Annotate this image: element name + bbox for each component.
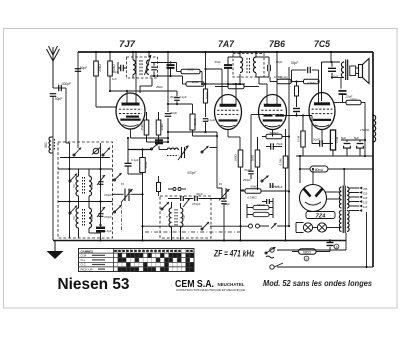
resistor 1M horizontal	[176, 63, 178, 72]
IF transformer IFT2 shield box	[233, 54, 264, 78]
pilot lamp 1	[303, 223, 312, 232]
wire cathode RC rail	[127, 138, 129, 150]
tube 7A7 cathode	[219, 119, 238, 121]
capacitor 100pF dark	[167, 64, 175, 66]
svg-text:0.1μF: 0.1μF	[179, 95, 187, 99]
capacitor 0.1uF osc right	[203, 118, 209, 120]
wire AVC column	[77, 52, 79, 148]
row A trimmer	[93, 148, 99, 154]
IF transformer IFT1 shield box	[127, 57, 158, 78]
power transformer heater winding	[339, 211, 341, 232]
output transformer voice coil	[350, 66, 356, 76]
svg-text:Niesen 53: Niesen 53	[58, 276, 130, 293]
svg-text:8μF: 8μF	[354, 136, 359, 140]
wire tuning C1 leads	[113, 193, 124, 195]
pilot lamp 2	[317, 223, 326, 232]
svg-text:15: 15	[219, 182, 223, 186]
tube 7J7 cathode	[120, 119, 140, 121]
tube 7C5 anode	[314, 102, 330, 105]
svg-text:50pF: 50pF	[291, 61, 299, 65]
coil unit shield box	[58, 142, 113, 238]
wire transformer foot	[345, 233, 347, 250]
svg-text:100Ω: 100Ω	[234, 154, 238, 162]
switch detector	[262, 176, 269, 182]
wire osc box internals	[168, 198, 180, 200]
wire IFT1 secondary top rail	[151, 62, 177, 64]
row B coil primary	[76, 176, 79, 196]
svg-text:250pF: 250pF	[243, 178, 251, 182]
wire 7B6 grid stem	[266, 84, 268, 106]
wire voltage tap down	[366, 212, 368, 267]
resistor 25k vertical osc	[144, 120, 149, 135]
svg-text:25kΩ: 25kΩ	[156, 85, 163, 89]
capacitor 30pF	[194, 196, 196, 201]
tube 7B6 diode plates	[264, 114, 273, 116]
resistor AVC 50k	[228, 84, 244, 89]
wire coupling node up	[291, 70, 293, 82]
capacitor IFT2 secondary	[267, 65, 269, 72]
svg-text:150Ω: 150Ω	[350, 98, 357, 102]
oscillator switch left	[162, 202, 169, 209]
svg-text:20kΩ: 20kΩ	[160, 123, 164, 131]
tuning capacitor C1	[124, 189, 126, 202]
wire row divider 2	[58, 201, 113, 203]
capacitor 25uF cathode bypass	[339, 90, 347, 92]
wire secondary drop	[340, 78, 342, 89]
resistor osc top small	[157, 183, 161, 192]
row B core	[82, 177, 84, 194]
capacitor mains	[327, 242, 334, 244]
box 680mA	[299, 249, 317, 255]
svg-text:15: 15	[121, 182, 125, 186]
wire cap to coil top	[65, 88, 67, 143]
wire osc stem	[167, 52, 169, 112]
switch mid row C	[115, 205, 122, 212]
svg-text:7C5: 7C5	[314, 39, 330, 49]
tube 7J7 second anode	[126, 116, 139, 118]
wire AVC long vertical	[288, 67, 290, 226]
svg-text:70pF: 70pF	[244, 168, 251, 172]
row C coil primary	[76, 208, 79, 228]
svg-text:7B6: 7B6	[269, 39, 285, 49]
svg-text:300Ω: 300Ω	[144, 162, 148, 169]
IFT1 tuning arrow	[145, 55, 152, 75]
resistor 0.5M diode load	[277, 79, 291, 84]
svg-text:30pF: 30pF	[196, 192, 203, 196]
row B trimmer arrow	[97, 175, 105, 185]
power transformer HT winding	[339, 187, 341, 208]
power transformer secondary taps	[347, 187, 349, 208]
wire osc long vertical	[216, 132, 218, 188]
resistor 0.5M grid 7C5	[304, 79, 320, 84]
svg-text:25kΩ: 25kΩ	[98, 64, 102, 72]
svg-text:0.5M: 0.5M	[335, 136, 339, 143]
capacitor 0.1uF det	[269, 183, 271, 188]
svg-text:50kΩ: 50kΩ	[250, 185, 258, 189]
tube 7Z4 plates	[304, 189, 311, 197]
wire IFT2 secondary down to 7B6	[258, 77, 260, 84]
capacitor 20nF	[319, 140, 321, 147]
capacitor small secondary	[151, 66, 157, 68]
resistor 50k boxed	[253, 205, 269, 209]
tube 7C5 grids	[312, 108, 333, 110]
svg-text:O.L: O.L	[81, 258, 86, 262]
capacitor 50pF osc grid	[165, 113, 172, 115]
wire row A rail	[60, 157, 110, 159]
capacitor padder 370pF	[180, 196, 182, 201]
capacitor on detector divider	[293, 108, 300, 110]
wire to 7A7 grid	[206, 68, 223, 70]
svg-text:125: 125	[363, 201, 368, 205]
svg-text:b: b	[306, 257, 308, 261]
svg-text:560: 560	[44, 142, 48, 148]
capacitor 70pF	[270, 143, 272, 150]
switch mid row B	[115, 173, 122, 180]
wire IFT1 secondary bottom rail	[150, 75, 183, 77]
wire diode AVC line	[284, 115, 312, 117]
tube 7C5 envelope	[309, 93, 335, 130]
resistor 25k vertical	[95, 52, 97, 61]
wire IFT1 stems	[132, 52, 134, 57]
resistor 0.5M vertical	[283, 156, 288, 168]
wire left drop	[299, 156, 301, 169]
capacitor padder dark	[155, 139, 163, 141]
IFT1 secondary coil	[147, 60, 149, 74]
svg-text:20kΩ: 20kΩ	[193, 118, 197, 126]
IFT2 core	[246, 58, 248, 74]
wire transformer bottom	[332, 77, 344, 79]
wire divider vertical	[205, 52, 207, 89]
output transformer primary	[341, 62, 344, 78]
svg-text:500pF: 500pF	[271, 185, 280, 189]
IFT1 primary coil	[133, 60, 135, 74]
oscillator switch contacts	[173, 188, 176, 191]
tube 7B6 cathode	[263, 119, 283, 121]
wire between resistors	[291, 81, 304, 83]
wire osc node	[168, 103, 193, 105]
svg-text:NEUCHATEL: NEUCHATEL	[218, 282, 245, 287]
IFT1 core	[139, 60, 141, 75]
electrolytic 8uF second	[359, 140, 361, 142]
svg-text:1nF: 1nF	[112, 77, 117, 81]
wire RC bottom	[128, 173, 143, 175]
wire mains rail	[277, 249, 346, 251]
capacitor padder on C2	[221, 200, 227, 202]
svg-text:245: 245	[363, 187, 368, 191]
svg-text:1500Ω: 1500Ω	[360, 128, 370, 132]
resistor 100R cathode 7A7	[238, 150, 243, 167]
oscillator tracking coil	[167, 148, 178, 150]
svg-text:470pF: 470pF	[104, 193, 112, 197]
svg-text:50: 50	[182, 215, 186, 219]
wire lamps rail	[296, 222, 304, 224]
transformer tap arrows	[349, 187, 359, 189]
wire gang link 2	[145, 231, 242, 233]
svg-text:500pF: 500pF	[62, 82, 71, 86]
IFT2 secondary coil	[253, 57, 256, 73]
wire antenna mast down	[52, 97, 54, 240]
svg-text:0.5MΩ: 0.5MΩ	[274, 75, 282, 79]
tube 7A7 grids	[217, 109, 239, 111]
wire 7J7 screen stem	[126, 91, 128, 104]
capacitor tone 5nF	[331, 62, 333, 67]
svg-text:50: 50	[72, 216, 76, 220]
svg-text:50 kΩ: 50 kΩ	[257, 203, 264, 207]
wire plate rail 7A7	[202, 83, 245, 85]
svg-text:20nF: 20nF	[313, 138, 320, 142]
wire transformer HT top feed	[343, 169, 345, 186]
row C switch	[70, 206, 77, 214]
oscillator switch right	[202, 222, 209, 229]
IFT2 primary coil	[240, 57, 243, 73]
label circled a	[334, 244, 339, 249]
row C trimmer arrow	[97, 207, 105, 217]
wire IFT2 stems to bus	[239, 52, 241, 57]
wire coil stubs row C	[78, 202, 80, 209]
wire 7A7 grid stem	[221, 69, 223, 105]
svg-text:0.5M: 0.5M	[279, 158, 283, 165]
svg-text:500kΩ: 500kΩ	[270, 131, 280, 135]
svg-text:220: 220	[363, 192, 368, 196]
capacitor IFT1 primary	[120, 65, 122, 72]
power transformer core	[342, 186, 344, 234]
wire main ground bus	[53, 240, 346, 242]
wire B+ top bus	[78, 51, 373, 53]
svg-text:1MΩ: 1MΩ	[192, 80, 199, 84]
capacitor IFT2 primary	[224, 64, 232, 66]
svg-text:30pF: 30pF	[170, 95, 177, 99]
antenna coil 560	[49, 137, 51, 153]
oscillator coil primary	[169, 208, 171, 227]
output transformer core	[345, 60, 347, 81]
resistor 1M horizontal second	[186, 82, 204, 87]
tube 7B6 anode	[264, 104, 281, 107]
row B switch	[70, 174, 77, 182]
wire 7A7 plate stem	[235, 84, 237, 105]
tube 7A7 anode	[220, 104, 237, 107]
svg-text:0.1μF: 0.1μF	[131, 158, 139, 162]
wire left inner vertical	[69, 143, 71, 238]
tube 7J7 anode	[122, 103, 140, 106]
svg-text:a: a	[336, 245, 338, 249]
oscillator trimmer arrow	[183, 198, 190, 207]
svg-text:O.M: O.M	[81, 254, 87, 258]
resistor 150R cathode	[346, 100, 361, 105]
svg-text:7A7: 7A7	[218, 39, 235, 49]
tube 7C5 cathode	[313, 119, 331, 121]
svg-text:1MΩ: 1MΩ	[187, 68, 194, 72]
resistor 0.5M boxed	[330, 130, 335, 150]
capacitor 0.1uF foot	[96, 227, 105, 229]
capacitor 70pF lower	[248, 170, 254, 172]
tube 7B6 grids	[261, 109, 283, 111]
resistor volume 0.5M	[261, 190, 289, 192]
wire 7J7 cathode down	[130, 129, 132, 138]
capacitor 50pF antenna shunt	[50, 93, 57, 95]
resistor boxed 20k	[190, 114, 195, 130]
resistor 50k vertical	[109, 52, 111, 61]
wire mid inner vertical	[100, 143, 102, 225]
resistor small vertical detector	[295, 86, 299, 96]
pickup switch	[271, 223, 277, 229]
wire screen rail	[300, 168, 310, 170]
resistor 400R boxed	[310, 166, 328, 172]
row C cap	[99, 213, 104, 215]
wire 7Z4 to transformer	[326, 191, 342, 193]
wire screen feed	[110, 90, 177, 92]
svg-text:Mod. 52 sans les ondes longes: Mod. 52 sans les ondes longes	[263, 279, 373, 288]
svg-text:7J7: 7J7	[119, 39, 136, 49]
svg-text:470pF: 470pF	[222, 202, 230, 206]
label circled b	[304, 256, 309, 261]
svg-text:50pF: 50pF	[215, 60, 222, 64]
row B coil secondary	[89, 176, 92, 196]
trimmer capacitor osc	[181, 147, 183, 158]
wire osc horizontals	[131, 137, 169, 139]
svg-text:0.5MΩ: 0.5MΩ	[248, 196, 258, 200]
capacitor 100pF	[174, 97, 180, 99]
tube 7B6 envelope	[259, 95, 287, 130]
wire second resistor left	[182, 76, 184, 84]
wire osc row	[158, 146, 160, 150]
label box 7Z4	[306, 212, 335, 219]
junction dots top bus	[95, 51, 97, 53]
svg-text:O.C: O.C	[81, 263, 87, 267]
wire 7Z4 top	[312, 169, 314, 185]
wire 7B6 plate stem	[276, 52, 278, 106]
antenna	[52, 47, 54, 88]
svg-text:ZF = 471 kHz: ZF = 471 kHz	[213, 249, 255, 259]
svg-text:0.1μF: 0.1μF	[104, 229, 112, 233]
svg-text:8μF: 8μF	[341, 136, 346, 140]
svg-text:160: 160	[363, 196, 368, 200]
wire HT rail	[296, 155, 373, 157]
wire coil stubs row B	[78, 169, 80, 176]
switch osc right	[202, 146, 209, 152]
svg-text:50pF: 50pF	[55, 97, 62, 101]
mains switch pole 1	[270, 248, 274, 252]
capacitor 0.1uF cathode	[127, 150, 129, 164]
row C core	[82, 209, 84, 226]
speaker	[359, 65, 363, 78]
svg-text:50pF: 50pF	[276, 60, 283, 64]
svg-text:25kΩ: 25kΩ	[90, 215, 94, 222]
svg-text:50: 50	[72, 184, 76, 188]
resistor 3M vertical	[255, 150, 260, 167]
resistor 20k vertical osc2	[156, 120, 161, 135]
svg-text:25kΩ: 25kΩ	[140, 123, 144, 131]
wire 7A7 cathode down	[227, 130, 229, 138]
capacitor 500pF antenna series	[58, 85, 60, 92]
row A switch 1	[74, 148, 81, 156]
resistor small vertical right	[203, 89, 207, 103]
field coil 1500R	[373, 115, 376, 142]
resistor cathode vertical	[142, 150, 144, 158]
svg-text:CONSTRUCTION ELECTRIQUE ET MEC: CONSTRUCTION ELECTRIQUE ET MECANIQUE	[176, 288, 245, 292]
wire row divider 1	[58, 168, 113, 170]
resistor lower boxed	[253, 212, 269, 216]
electrolytic 8uF first	[346, 140, 348, 142]
svg-text:PICK-UP: PICK-UP	[81, 267, 93, 271]
dial cord table	[79, 249, 195, 272]
mains switch pole 2	[270, 265, 274, 269]
resistor 0.5M to 7Z4	[301, 131, 305, 147]
wire right border rail	[372, 52, 374, 267]
svg-text:50pF: 50pF	[171, 111, 178, 115]
row A switch 2	[103, 148, 110, 156]
row C coil secondary	[89, 208, 92, 228]
svg-text:50pF: 50pF	[80, 66, 87, 70]
resistor 500k plate load	[266, 134, 282, 139]
capacitor 50pF coupling 7C5	[292, 69, 307, 71]
wire 7B6 down	[272, 130, 274, 135]
wire electrolytic rail dots	[364, 139, 366, 141]
resistor 50k osc feed	[245, 189, 261, 194]
svg-text:470pF: 470pF	[187, 171, 197, 175]
table vertical grid	[113, 249, 115, 272]
wire mains lower	[277, 266, 373, 268]
oscillator coil secondary	[181, 208, 183, 227]
svg-text:70pF: 70pF	[276, 142, 283, 146]
tube 7J7 envelope	[116, 93, 145, 129]
svg-text:0.5MΩ: 0.5MΩ	[307, 81, 315, 85]
wire antenna to coupling cap	[53, 87, 66, 89]
svg-text:0.1μF: 0.1μF	[208, 118, 216, 122]
junction dots coil box	[68, 168, 70, 170]
oscillator core	[174, 209, 176, 226]
ground symbol	[54, 241, 56, 252]
svg-text:0.5M: 0.5M	[297, 135, 301, 142]
tuning capacitor C2	[221, 188, 223, 199]
wire 7C5 plate line	[322, 61, 341, 63]
svg-text:80mA: 80mA	[315, 168, 324, 172]
wire 7C5 bottom	[321, 130, 323, 144]
svg-text:25kΩ: 25kΩ	[90, 183, 94, 190]
capacitor 50pF on AVC column	[75, 68, 82, 70]
wire B+ feed to output stage	[330, 52, 332, 62]
svg-text:50kΩ: 50kΩ	[232, 82, 240, 86]
svg-text:370pF: 370pF	[192, 202, 201, 206]
tube 7J7 grids	[119, 108, 142, 110]
pickup jack	[249, 224, 253, 228]
wire resistor to node	[200, 71, 202, 73]
oscillator shield box	[160, 196, 211, 238]
wire 7J7 plate stem from bus	[135, 52, 137, 104]
row B cap	[99, 181, 104, 183]
svg-text:50kΩ: 50kΩ	[205, 92, 209, 99]
switch osc left	[152, 144, 159, 150]
wire grid feed 7J7	[96, 106, 116, 108]
svg-text:7Z4: 7Z4	[316, 214, 327, 220]
tube 7Z4 envelope	[300, 185, 327, 212]
svg-text:110: 110	[363, 205, 368, 209]
svg-text:470pF: 470pF	[104, 215, 112, 219]
wire electrolytic top rail	[341, 139, 365, 141]
gang chain link C1	[121, 202, 123, 232]
svg-text:680Ω: 680Ω	[303, 251, 311, 255]
wire volume node	[241, 189, 245, 191]
fuse squiggle	[266, 256, 274, 258]
wire 7C5 grid stem	[318, 70, 320, 104]
tube 7A7 envelope	[215, 95, 242, 130]
capacitor 500pF	[266, 199, 268, 204]
